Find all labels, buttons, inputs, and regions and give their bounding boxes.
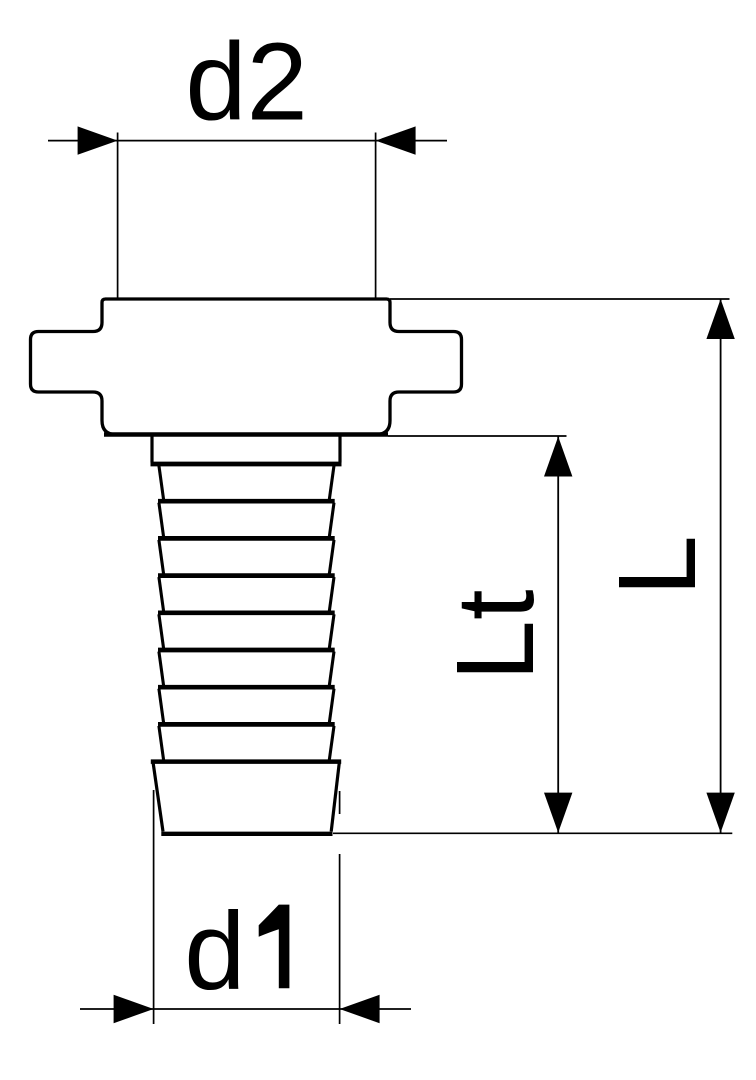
barb band 7 left edge bbox=[159, 689, 164, 723]
svg-text:d: d bbox=[184, 890, 245, 1013]
dimension d1: extension line right lower segment bbox=[339, 854, 341, 1024]
barb band 2 left edge bbox=[159, 503, 164, 537]
barb band 8 right edge bbox=[329, 726, 334, 760]
dimension Lt: dimension line bbox=[557, 437, 559, 833]
dimension d2: left arrowhead bbox=[78, 126, 118, 154]
nut bottom thick edge bbox=[104, 432, 388, 436]
svg-text:L: L bbox=[596, 535, 719, 596]
dimension d1: extension line right upper segment bbox=[339, 791, 341, 814]
barb band 5 left edge bbox=[159, 614, 164, 648]
dimension Lt: top extension line bbox=[388, 435, 567, 437]
barb tip bottom edge bbox=[161, 832, 332, 836]
barb ridge 2 bbox=[158, 536, 335, 541]
barb band 2 right edge bbox=[329, 503, 334, 537]
collar left side bbox=[150, 436, 153, 463]
dimension Lt: top arrowhead bbox=[544, 437, 572, 477]
barb tip top edge bbox=[151, 759, 341, 764]
barb band 4 right edge bbox=[329, 577, 334, 611]
barb tip left slant bbox=[153, 763, 163, 831]
dimension d2: extension line right bbox=[375, 133, 377, 299]
dimension d1: right arrowhead bbox=[340, 995, 380, 1023]
barb ridge 3 bbox=[158, 573, 335, 578]
barb band 4 left edge bbox=[159, 577, 164, 611]
barb tip right slant bbox=[331, 763, 339, 831]
barb band 3 left edge bbox=[159, 540, 164, 574]
collar right side bbox=[338, 436, 341, 463]
barb ridge 4 bbox=[158, 610, 335, 615]
svg-text:d2: d2 bbox=[185, 21, 307, 144]
barb band 1 right edge bbox=[329, 466, 334, 500]
barb band 7 right edge bbox=[329, 689, 334, 723]
fitting body: hex nut profile outline bbox=[31, 299, 462, 435]
barb band 6 left edge bbox=[159, 652, 164, 686]
dimension L: top arrowhead bbox=[706, 299, 734, 339]
dimension d2: dimension line bbox=[48, 140, 447, 142]
dimension d1: extension line left bbox=[153, 790, 155, 1024]
barb band 3 right edge bbox=[329, 540, 334, 574]
barb ridge 7 bbox=[158, 722, 335, 727]
dimension d1: dimension line bbox=[80, 1008, 411, 1010]
barb band 5 right edge bbox=[329, 614, 334, 648]
dimension d1: left arrowhead bbox=[114, 995, 154, 1023]
dimension d1: digit 1 (drawn, Arial-style without foot) bbox=[259, 905, 290, 989]
barb band 1 left edge bbox=[159, 466, 164, 500]
barb band 6 right edge bbox=[329, 652, 334, 686]
dimension Lt: bottom arrowhead bbox=[544, 793, 572, 833]
dimension d2: right arrowhead bbox=[376, 126, 416, 154]
barb ridge 6 bbox=[158, 685, 335, 690]
dimension L / Lt: bottom extension line bbox=[333, 832, 732, 834]
barb band 8 left edge bbox=[159, 726, 164, 760]
dimension L: top extension line bbox=[390, 298, 730, 300]
svg-text:Lt: Lt bbox=[434, 589, 557, 681]
barb ridge 1 bbox=[158, 499, 335, 504]
dimension d2: extension line left bbox=[117, 133, 119, 299]
dimension L: bottom arrowhead bbox=[706, 793, 734, 833]
barb ridge 5 bbox=[158, 648, 335, 653]
collar bottom thick edge bbox=[151, 462, 342, 467]
dimension L: dimension line bbox=[720, 299, 722, 833]
